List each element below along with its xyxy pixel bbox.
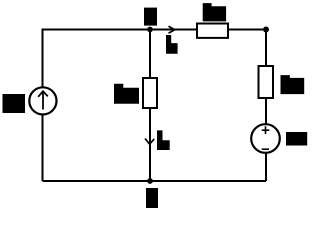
wire left: bottom of current source down to bottom rail [42,115,44,182]
label of voltage source V1 (black blob) [286,132,307,146]
wire middle: resistor R1 down to bottom rail [149,108,151,181]
node 0 junction dot on bottom rail [147,178,153,184]
wire top-right: from resistor R2 right side to top-right corner [229,29,267,31]
node 0 label (black blob) [146,188,158,208]
wire middle: node 2 down to resistor R1 [149,30,151,79]
voltage source V1 [251,124,280,153]
label i1 (black blob) [157,130,170,150]
wire: voltage source V1 to bottom wire [265,153,267,181]
current arrow i2 on top wire [169,26,175,33]
wire: resistor R3 to voltage source V1 [265,98,267,125]
resistor R2 (horizontal, top) [197,24,228,38]
label of current source I1 (black blob) [3,94,26,113]
label R3 (black folder-shaped blob) [281,75,305,94]
label R1 (black folder-shaped blob) [114,84,139,104]
wire top-left: from current source top up and right to node 2 [43,30,197,88]
wire right: top-right corner down to resistor R3 [265,30,267,67]
current arrow i1 on middle wire (downward) [145,139,154,145]
resistor R1 (vertical, middle) [143,78,157,108]
node 2 junction dot [147,27,153,33]
node 2 label (black blob) [144,8,157,26]
label i2 (black blob) [166,35,178,54]
label R2 (black folder-shaped blob) [203,3,226,21]
wire bottom: full bottom rail [43,180,267,182]
current source I1 [29,87,56,114]
resistor R3 (vertical, right) [259,66,274,98]
top-right corner junction dot [263,27,269,33]
